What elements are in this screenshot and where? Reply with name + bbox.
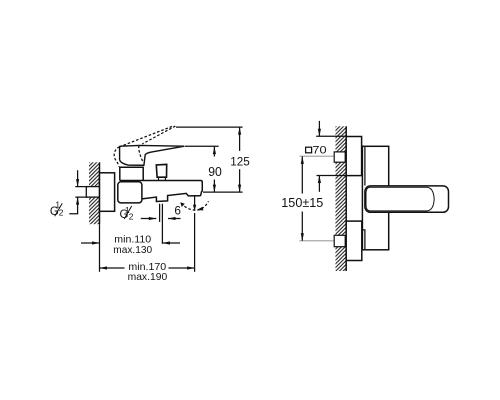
wall surface extension line (left, vertical) <box>99 224 101 272</box>
svg-text:max.190: max.190 <box>128 272 168 283</box>
svg-text:90: 90 <box>208 165 222 179</box>
svg-text:2: 2 <box>59 208 64 218</box>
svg-text:max.130: max.130 <box>113 245 152 256</box>
dimension 125 line <box>239 127 241 192</box>
body inner edge line lower with step tick <box>362 230 365 249</box>
arc arrowhead right (at centerline) <box>197 207 204 211</box>
dimension 150+-15 line <box>301 156 303 240</box>
handle swing arc left (dashed) <box>114 147 119 167</box>
spout end centerline upper part with down arrow <box>194 195 196 205</box>
center extension line top square (gray) <box>300 155 334 157</box>
body block lower (rounded) <box>118 182 142 203</box>
extension line block top <box>316 135 346 137</box>
svg-text:70: 70 <box>312 144 326 156</box>
arc arrowhead left (near 6 deg label) <box>180 202 185 207</box>
body block upper (cartridge housing) <box>120 167 143 180</box>
top square connector on wall <box>334 152 345 162</box>
shower outlet pipe lines below tab <box>160 204 163 244</box>
wall (hatched) right view <box>336 126 347 271</box>
label G1/2 left <box>50 199 64 218</box>
svg-text:6: 6 <box>174 203 181 217</box>
inlet connection stub G1/2 <box>86 187 99 198</box>
min170 arrow right <box>187 266 195 269</box>
svg-text:150±15: 150±15 <box>281 196 323 210</box>
square70 arrow up <box>318 176 320 192</box>
svg-text:2: 2 <box>129 211 134 221</box>
G1/2 shower outlet dimension <box>141 218 181 220</box>
min110 arrow left <box>162 241 170 244</box>
125 arrow up <box>238 127 241 135</box>
handle (side view) outer <box>365 186 449 212</box>
center extension line bottom square (gray) <box>300 240 334 242</box>
body inner edge line upper <box>364 147 366 186</box>
90 arrow up <box>213 147 216 155</box>
150 arrow up <box>301 156 304 164</box>
handle lever (solid, rest position) <box>120 145 185 165</box>
extension line block bottom <box>317 175 347 177</box>
min170 arrow left <box>100 266 108 269</box>
wall surface line left view <box>99 162 101 224</box>
extension line lever top (90 top) <box>185 145 219 147</box>
bottom mounting block (escutcheon) <box>346 221 362 260</box>
wall (hatched) left view <box>89 162 100 224</box>
square70 arrow down <box>318 121 320 136</box>
min110 arrow right <box>92 241 100 244</box>
dimension min110/max130 <box>81 242 180 244</box>
diverter knob on spout <box>156 164 166 177</box>
G1/2 inlet dimension lines with leader <box>69 170 77 213</box>
label square 70 <box>306 147 312 153</box>
150 arrow down <box>301 233 304 241</box>
diverter knob neck <box>159 177 166 180</box>
90 arrow down <box>213 185 216 193</box>
extension line handle tip (125 top) <box>176 126 243 128</box>
dimension 90 line <box>213 147 215 193</box>
svg-text:125: 125 <box>230 155 250 169</box>
escutcheon plate (wall flange) <box>100 173 115 212</box>
handle seam swing arc (dashed) <box>139 146 144 163</box>
6 degree swivel arc (dashed) <box>181 201 209 210</box>
G1/2 arrow down <box>76 179 79 187</box>
G1/2 outlet arrow right <box>149 217 157 220</box>
top mounting block (escutcheon) <box>346 137 361 176</box>
handle inner grip contour with seam <box>366 187 434 211</box>
handle raised blade (dashed) <box>119 126 174 147</box>
svg-text:min.110: min.110 <box>114 234 151 245</box>
svg-text:min.170: min.170 <box>128 262 166 273</box>
dimension min170/max190 <box>100 267 195 269</box>
faucet body slab (side view) <box>362 146 388 250</box>
wall surface line right view <box>345 126 347 271</box>
spout end centerline lower part (extension for min170/max190) <box>194 213 196 272</box>
label G1/2 outlet <box>120 205 134 221</box>
125 arrow down <box>238 185 241 193</box>
spout outline with outlet tabs <box>120 181 203 202</box>
extension line spout bottom (dims bottom) <box>203 191 243 193</box>
bottom square connector on wall <box>334 235 345 246</box>
G1/2 inlet extension lines <box>75 187 88 198</box>
G1/2 outlet arrow left <box>168 217 176 220</box>
G1/2 arrow up <box>76 197 79 205</box>
